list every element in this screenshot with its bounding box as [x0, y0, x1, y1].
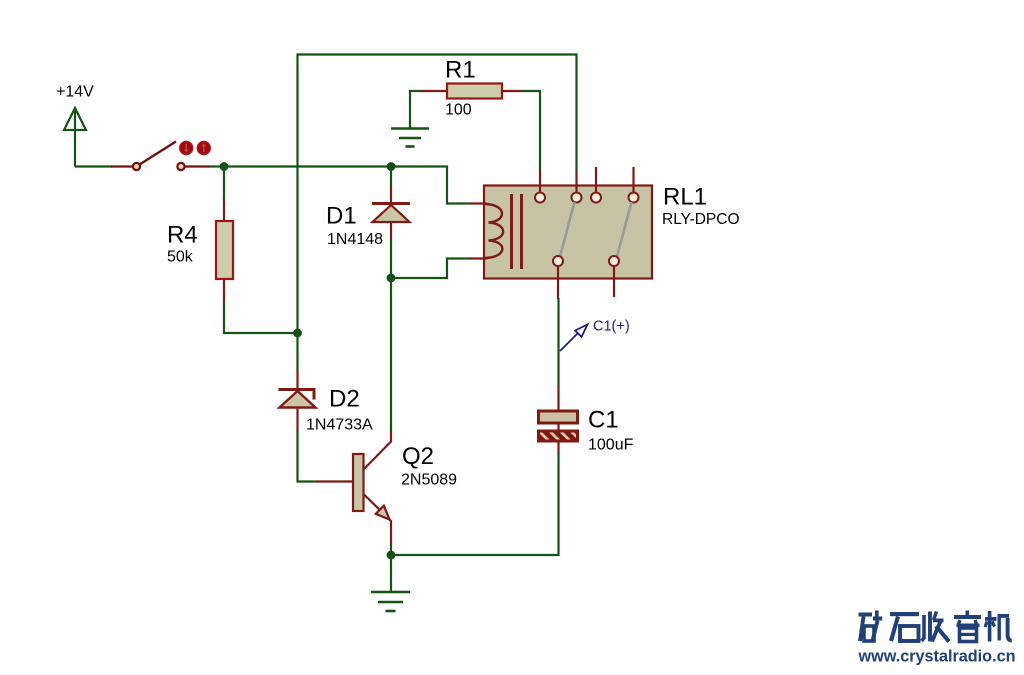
capacitor C1 top plate: [539, 411, 578, 423]
relay RL1 pin 4 stub: [632, 167, 634, 193]
relay RL1 lever 2: [617, 202, 632, 257]
char yin: [954, 611, 981, 642]
svg-text:1N4733A: 1N4733A: [306, 417, 373, 434]
relay RL1 bottom pin 6 stub: [613, 266, 615, 297]
char shou: [922, 612, 950, 642]
wire Q2 collector up to node D: [390, 278, 392, 431]
node D junction dot (below D1): [387, 274, 396, 283]
wire D2 to Q2 base: [298, 430, 318, 482]
resistor R1 pin right: [501, 90, 523, 92]
wire switch to node A: [209, 165, 224, 167]
relay RL1 pin 3 contact circle: [591, 193, 601, 203]
resistor R4 pin top: [223, 199, 225, 222]
relay RL1 coil arcs: [485, 204, 503, 258]
relay RL1 pin 3 stub: [595, 167, 597, 193]
resistor R1 body: [447, 84, 502, 99]
transistor Q2 base pin: [316, 480, 353, 482]
wire R1 right to relay pin 1: [522, 91, 540, 173]
diode D1 pin bottom: [390, 222, 392, 278]
svg-text:C1: C1: [588, 407, 619, 434]
wire R4 bottom to node C: [224, 301, 298, 333]
relay RL1 lever 1: [560, 202, 575, 257]
wire node A to node B (main horizontal): [224, 165, 391, 167]
zener diode D2 triangle: [280, 391, 316, 408]
relay RL1 body: [484, 186, 652, 279]
switch right contact circle: [177, 163, 184, 170]
node A junction dot: [220, 162, 229, 171]
relay RL1 coil pin stubs: [470, 204, 487, 259]
transistor Q2 collector lead: [364, 430, 391, 469]
relay RL1 pin 1 contact circle: [535, 193, 545, 203]
resistor R4 pin bottom: [223, 279, 225, 302]
resistor R4 body: [216, 221, 233, 279]
svg-text:100: 100: [445, 102, 472, 119]
zener diode D2 cathode bar with bend: [279, 390, 315, 400]
relay RL1 bottom pin 5 stub: [557, 266, 559, 299]
transistor Q2 emitter lead: [364, 495, 391, 545]
power arrow symbol: [64, 108, 86, 167]
switch SW left pin: [111, 165, 134, 167]
svg-text:50k: 50k: [167, 249, 194, 266]
switch right pin: [185, 165, 211, 167]
relay RL1 core bars: [512, 194, 522, 269]
transistor Q2 emitter arrow: [376, 506, 390, 520]
svg-text:2N5089: 2N5089: [401, 472, 457, 489]
resistor R1 ground wire: [410, 91, 423, 128]
node C junction dot: [293, 329, 302, 338]
zener diode D2 pin bottom: [296, 408, 298, 432]
svg-text:1N4148: 1N4148: [327, 231, 383, 248]
diode D1 triangle: [373, 205, 410, 222]
ground symbol (bottom): [371, 555, 410, 611]
node E junction dot: [387, 551, 396, 560]
capacitor C1 bottom plate (hatched): [539, 431, 578, 441]
relay RL1 pin 2 stub: [575, 171, 577, 193]
resistor R4 wire top: [223, 167, 225, 201]
wire node D to relay coil bottom: [391, 259, 471, 279]
relay RL1 bottom contact circle 1: [553, 256, 563, 266]
svg-text:+14V: +14V: [56, 84, 94, 101]
svg-text:100uF: 100uF: [588, 437, 634, 454]
watermark logo 矿石收音机 (drawn strokes): [859, 611, 1012, 642]
char ji: [985, 611, 1012, 642]
switch left contact circle: [133, 163, 140, 170]
wire node B to relay coil top: [391, 167, 471, 204]
svg-text:RL1: RL1: [663, 184, 707, 211]
svg-text:D1: D1: [326, 203, 357, 230]
switch toggle actuator red circle 1: [180, 142, 193, 155]
wire Q2 emitter to node E: [390, 543, 392, 555]
switch toggle actuator red circle 2: [197, 142, 210, 155]
relay RL1 pin 1 stub: [539, 172, 541, 193]
char kuang: [859, 611, 883, 642]
capacitor C1 pin bottom: [557, 422, 559, 432]
svg-text:R4: R4: [167, 222, 198, 249]
svg-text:D2: D2: [329, 386, 360, 413]
resistor R1 pin left: [422, 90, 448, 92]
diode D1 cathode bar: [372, 202, 410, 205]
relay RL1 pin 4 contact circle: [629, 193, 639, 203]
node B junction dot (above D1): [387, 162, 396, 171]
zener diode D2 pin top: [296, 333, 298, 390]
svg-text:RLY-DPCO: RLY-DPCO: [662, 211, 740, 228]
switch lever: [140, 142, 177, 165]
svg-text:C1(+): C1(+): [593, 319, 630, 335]
annotation C1(+) arrow: [560, 325, 588, 352]
diode D1 pin top (from node B): [390, 167, 392, 205]
relay RL1 bottom contact circle 2: [609, 256, 619, 266]
capacitor C1 pin top: [557, 386, 559, 412]
relay RL1 pin 2 contact circle: [572, 193, 582, 203]
char shi: [890, 612, 919, 641]
svg-text:www.crystalradio.cn: www.crystalradio.cn: [858, 648, 1016, 666]
wire top rail: node C up, across, down to relay pin 2: [298, 55, 577, 334]
wire relay pin 5 down to C1: [557, 298, 559, 387]
svg-text:R1: R1: [445, 57, 476, 84]
transistor Q2 base bar: [353, 454, 364, 511]
wire from power arrow to switch: [75, 165, 112, 167]
ground symbol (under R1): [391, 129, 429, 147]
svg-text:Q2: Q2: [402, 443, 434, 470]
wire node E to C1 bottom: [391, 453, 559, 555]
